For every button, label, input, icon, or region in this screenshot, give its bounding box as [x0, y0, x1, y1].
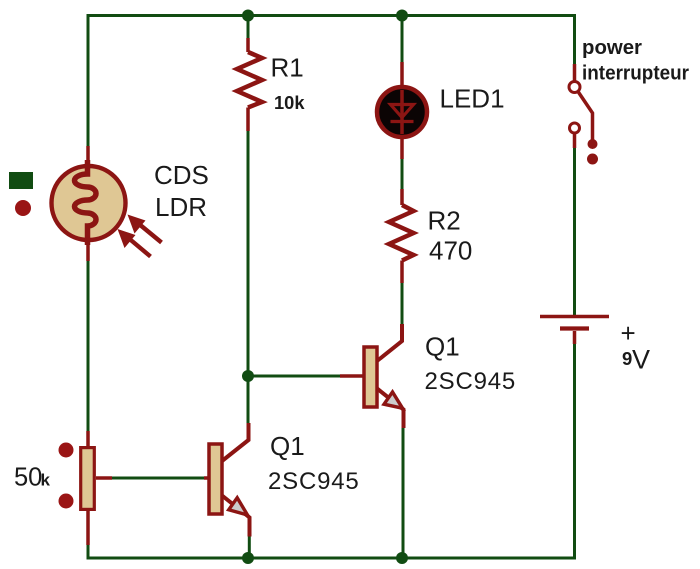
wire left rail bottom + bottom rail: [88, 544, 576, 558]
node top R1 junction: [242, 10, 254, 22]
wire LED column top: [401, 16, 404, 63]
switch power interrupteur: [569, 64, 598, 165]
svg-text:V: V: [632, 345, 650, 375]
wire top rail: [88, 14, 575, 17]
wire R1 column middle: [247, 131, 250, 423]
wire R1 column top: [247, 16, 250, 39]
svg-text:power: power: [582, 37, 642, 59]
svg-text:10k: 10k: [274, 93, 305, 113]
wire Q1a emitter to bottom rail: [248, 536, 251, 558]
svg-text:Q1: Q1: [425, 332, 460, 362]
potentiometer 50k: [59, 431, 113, 545]
wire R2 to Q1b collector: [401, 283, 404, 324]
node bottom Q1b junction: [396, 552, 408, 564]
battery 9V: [540, 317, 609, 345]
svg-text:470: 470: [429, 236, 472, 266]
wire right rail upper: [573, 14, 576, 64]
node bottom Q1a junction: [242, 552, 254, 564]
resistor R1: [237, 38, 262, 131]
wire LED to R2: [401, 159, 404, 189]
svg-text:LED1: LED1: [440, 84, 505, 114]
svg-text:interrupteur: interrupteur: [582, 63, 689, 85]
wire Q1b emitter to bottom rail: [402, 427, 405, 558]
legend red dot marker: [15, 200, 31, 216]
legend green square marker: [9, 172, 33, 189]
svg-text:LDR: LDR: [155, 192, 207, 222]
wire left rail upper: [87, 14, 90, 146]
LED LED1: [377, 62, 427, 159]
svg-text:2SC945: 2SC945: [425, 368, 517, 395]
svg-text:50: 50: [14, 464, 42, 492]
svg-text:Q1: Q1: [270, 431, 305, 461]
wire pot wiper to Q1a base: [112, 477, 204, 480]
photoresistor CDS LDR: [52, 146, 162, 261]
node top LED junction: [396, 10, 408, 22]
wire node to Q1b base: [248, 375, 340, 378]
wire right rail middle: [573, 148, 576, 315]
svg-text:CDS: CDS: [154, 160, 209, 190]
resistor R2: [389, 189, 414, 283]
svg-text:R2: R2: [428, 206, 461, 236]
wire left rail middle: [87, 261, 90, 431]
node R1/Q1b base junction: [242, 370, 254, 382]
transistor Q1 (lower): [204, 423, 250, 537]
transistor Q1 (upper): [340, 324, 404, 428]
svg-text:k: k: [41, 471, 51, 490]
svg-text:+: +: [621, 318, 636, 348]
wire right rail lower: [573, 344, 576, 558]
svg-text:2SC945: 2SC945: [268, 468, 360, 495]
svg-text:9: 9: [622, 348, 632, 369]
svg-text:R1: R1: [271, 53, 304, 83]
